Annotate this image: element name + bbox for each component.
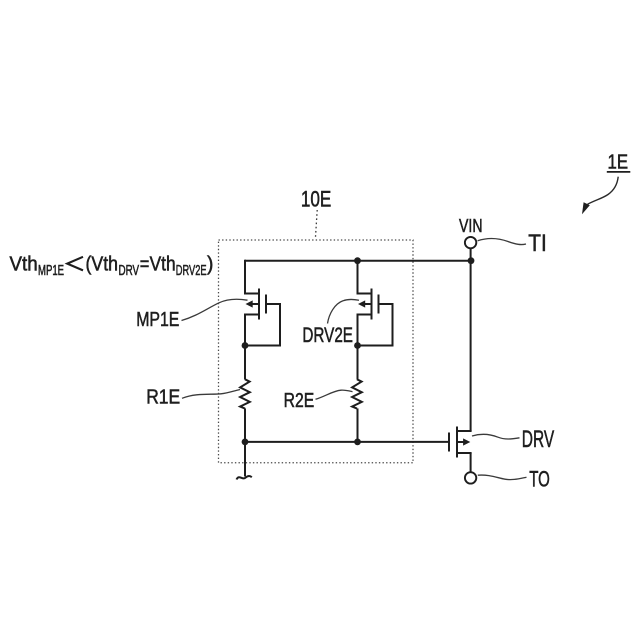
junction node MP1E gate/source: [242, 342, 249, 349]
svg-text:1E: 1E: [608, 152, 629, 174]
svg-text:DRV2E: DRV2E: [176, 263, 207, 279]
svg-text:TI: TI: [528, 230, 547, 257]
wire DRV source to TO terminal: [470, 453, 472, 472]
wire DRV2E gate-drain loop: [358, 303, 393, 346]
svg-text:10E: 10E: [301, 186, 331, 211]
terminal TI circle: [465, 237, 476, 248]
svg-text:VIN: VIN: [459, 216, 483, 236]
svg-text:DRV2E: DRV2E: [302, 324, 353, 347]
wire R2E to bottom rail: [357, 408, 359, 442]
leader from DRV2E label to transistor: [328, 299, 360, 323]
wire ground stub: [244, 442, 246, 477]
wire bottom rail: [245, 441, 449, 443]
formula label Vth_MP1E < (Vth_DRV = Vth_DRV2E): [10, 254, 214, 279]
svg-text:R2E: R2E: [284, 389, 315, 412]
block 10E dashed box: [219, 240, 414, 463]
transistor DRV2E: [357, 289, 393, 320]
wire top rail: [245, 260, 471, 262]
svg-text:Vth: Vth: [10, 254, 38, 276]
wire MP1E gate-drain loop: [245, 303, 280, 346]
resistor R2E: [352, 379, 362, 408]
svg-text:TO: TO: [529, 466, 550, 491]
leader from TI circle to TI label: [478, 239, 526, 245]
leader from TO circle to TO label: [478, 475, 527, 480]
resistor R1E: [240, 379, 250, 408]
ground continuation squiggle: [237, 476, 252, 480]
wire VIN terminal stub: [470, 248, 472, 260]
transistor DRV: [449, 427, 472, 458]
leader from MP1E label to transistor: [182, 299, 248, 320]
junction node rail / DRV2E: [354, 257, 361, 264]
arrow from 1E label: [582, 177, 618, 215]
svg-text:MP1E: MP1E: [136, 308, 179, 331]
leader from DRV transistor to DRV label: [472, 434, 520, 439]
wire DRV2E source down: [357, 315, 359, 380]
svg-text:MP1E: MP1E: [38, 263, 64, 279]
svg-text:DRV: DRV: [119, 263, 140, 279]
wire DRV2E drain up to rail: [357, 260, 359, 294]
dotted leader from 10E to block: [315, 210, 317, 239]
junction node bottom rail / R2E: [354, 439, 361, 446]
wire VIN rail down to DRV drain: [470, 261, 472, 431]
junction node rail / VIN: [468, 257, 475, 264]
wire MP1E drain up to rail: [244, 260, 246, 294]
svg-text:R1E: R1E: [146, 386, 180, 409]
leader from R1E label to resistor: [182, 390, 240, 399]
leader from R2E label to resistor: [316, 390, 353, 399]
svg-text:=: =: [140, 254, 150, 276]
svg-text:(Vth: (Vth: [86, 254, 119, 276]
svg-text:Vth: Vth: [150, 254, 176, 276]
terminal TO circle: [465, 472, 476, 483]
svg-text:DRV: DRV: [522, 426, 554, 453]
junction node DRV2E gate/source: [354, 342, 361, 349]
junction node bottom rail left: [242, 439, 249, 446]
wire R1E to bottom rail: [244, 408, 246, 442]
transistor MP1E: [244, 289, 280, 320]
figure label 1E: [607, 152, 631, 174]
wire MP1E source down: [244, 315, 246, 380]
svg-text:): ): [207, 254, 213, 276]
